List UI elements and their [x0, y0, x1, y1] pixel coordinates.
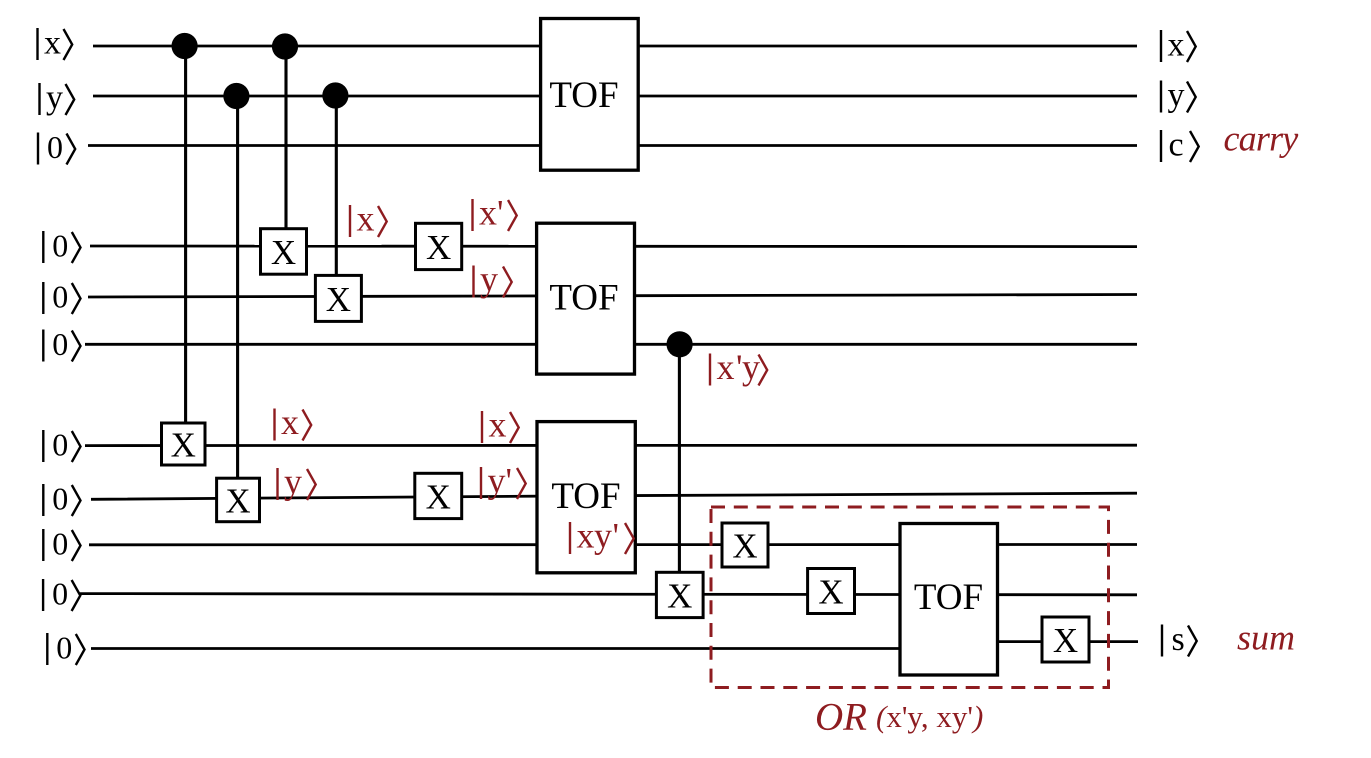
svg-text:TOF: TOF	[551, 476, 620, 517]
svg-text:(x'y, xy'): (x'y, xy')	[876, 699, 983, 734]
svg-text:X: X	[667, 576, 692, 615]
svg-text:y: y	[284, 462, 302, 502]
svg-text:y: y	[46, 80, 63, 117]
svg-text:x: x	[281, 402, 299, 442]
svg-text:TOF: TOF	[549, 75, 618, 116]
svg-text:TOF: TOF	[549, 278, 618, 319]
svg-text:0: 0	[52, 279, 68, 315]
svg-text:x: x	[1168, 27, 1185, 64]
svg-text:X: X	[171, 426, 196, 465]
svg-text:': '	[497, 193, 504, 233]
svg-text:X: X	[326, 280, 351, 319]
svg-text:x: x	[479, 193, 497, 233]
svg-text:y: y	[1168, 77, 1185, 114]
svg-text:X: X	[225, 481, 250, 520]
svg-text:x: x	[577, 516, 595, 556]
svg-text:TOF: TOF	[914, 577, 983, 618]
svg-text:x: x	[44, 25, 61, 62]
svg-text:X: X	[426, 477, 451, 516]
svg-text:0: 0	[52, 427, 68, 463]
svg-text:0: 0	[52, 576, 68, 612]
svg-text:0: 0	[52, 228, 68, 264]
svg-text:': '	[613, 516, 620, 556]
svg-text:y: y	[480, 259, 498, 299]
svg-text:0: 0	[56, 630, 72, 666]
svg-text:0: 0	[52, 526, 68, 562]
svg-text:sum: sum	[1237, 618, 1295, 658]
svg-text:X: X	[1053, 621, 1078, 660]
svg-text:carry: carry	[1224, 119, 1299, 159]
svg-text:y: y	[488, 461, 506, 501]
svg-text:c: c	[1169, 127, 1184, 164]
svg-text:': '	[506, 461, 513, 501]
svg-text:x: x	[489, 405, 507, 445]
svg-text:y: y	[742, 347, 760, 387]
svg-text:x: x	[357, 199, 375, 239]
svg-text:s: s	[1172, 621, 1185, 658]
svg-text:0: 0	[52, 481, 68, 517]
svg-text:0: 0	[47, 129, 63, 165]
svg-text:y: y	[594, 516, 612, 556]
svg-text:0: 0	[52, 326, 68, 362]
svg-text:X: X	[426, 228, 451, 267]
svg-text:X: X	[732, 527, 757, 566]
svg-text:X: X	[818, 573, 843, 612]
svg-text:x: x	[717, 347, 735, 387]
svg-text:OR: OR	[815, 696, 867, 739]
svg-text:X: X	[271, 233, 296, 272]
